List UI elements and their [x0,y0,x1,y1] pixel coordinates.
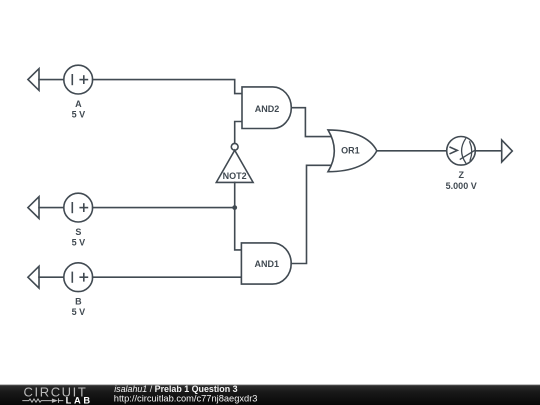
input flag B [28,266,39,288]
voltage source B [64,263,93,292]
footer bar [0,385,540,405]
input flag S [28,197,39,219]
label B [75,297,82,307]
CircuitLab logo wordmark LAB [66,395,93,405]
or gate OR1 [328,130,377,172]
wire junction to AND1 top input [235,208,242,250]
svg-text:5.000 V: 5.000 V [446,181,477,191]
footer url line [114,394,258,404]
label Z [458,170,464,180]
svg-text:AND1: AND1 [255,259,280,269]
svg-text:B: B [75,297,82,307]
wire source S to junction [93,207,235,209]
label AND1 [255,259,280,269]
junction node at S wire [232,205,237,210]
wire flagA to source A [39,79,64,81]
wire flagB to source B [39,276,64,278]
output flag Z [502,140,513,162]
svg-text:Z: Z [458,170,464,180]
svg-text:5 V: 5 V [72,110,86,120]
input flag A [28,69,39,91]
svg-text:isalahu1 / Prelab 1 Question 3: isalahu1 / Prelab 1 Question 3 [114,384,237,394]
wire voltmeter Z to output flag [475,150,501,152]
wire NOT2 input to junction [234,182,236,207]
wire source A to AND2 top input [93,80,242,94]
svg-text:AND2: AND2 [255,104,280,114]
label OR1 [341,146,360,156]
svg-text:NOT2: NOT2 [223,171,247,181]
svg-text:A: A [75,99,82,109]
footer credit line [114,384,237,394]
value 5 V (B) [72,307,86,317]
wire AND2 bottom input to NOT2 output bubble [235,122,242,144]
and gate AND2 [242,87,291,129]
wire OR1 output to voltmeter Z [377,150,447,152]
svg-text:S: S [75,227,81,237]
CircuitLab logo resistor-diode squiggle [22,398,63,403]
voltage source A [64,65,93,94]
svg-text:5 V: 5 V [72,238,86,248]
label AND2 [255,104,280,114]
wire flagS to source S [39,207,64,209]
value 5.000 V (Z) [446,181,477,191]
voltmeter Z [447,137,476,166]
svg-text:http://circuitlab.com/c77nj8ae: http://circuitlab.com/c77nj8aegxdr3 [114,394,258,404]
voltage source S [64,193,93,222]
label NOT2 [223,171,247,181]
inverter NOT2 [216,143,253,182]
label A [75,99,82,109]
svg-text:OR1: OR1 [341,146,360,156]
and gate AND1 [241,243,291,284]
CircuitLab logo wordmark CIRCUIT [24,384,88,399]
value 5 V (S) [72,238,86,248]
svg-text:LAB: LAB [66,395,93,405]
svg-text:5 V: 5 V [72,307,86,317]
wire source B to AND1 bottom input [93,276,242,278]
value 5 V (A) [72,110,86,120]
wire AND2 output to OR1 top input [291,108,331,137]
wire AND1 output to OR1 bottom input [291,165,331,263]
label S [75,227,81,237]
